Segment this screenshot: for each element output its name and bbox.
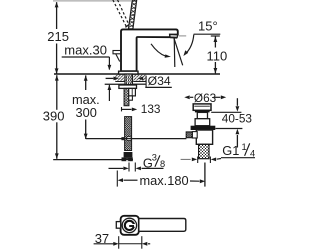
svg-text:110: 110	[207, 48, 228, 63]
svg-text:Ø34: Ø34	[148, 74, 171, 88]
svg-text:15°: 15°	[198, 19, 218, 34]
svg-text:8: 8	[160, 159, 165, 169]
svg-text:37: 37	[95, 231, 109, 246]
svg-text:300: 300	[76, 105, 97, 120]
svg-text:max.180: max.180	[140, 173, 189, 188]
svg-text:40-53: 40-53	[222, 111, 253, 125]
svg-text:3: 3	[152, 152, 157, 162]
svg-text:215: 215	[47, 29, 69, 44]
svg-text:Ø63: Ø63	[194, 91, 217, 105]
svg-text:133: 133	[141, 102, 161, 116]
svg-text:max.30: max.30	[64, 43, 107, 58]
svg-text:4: 4	[250, 148, 255, 158]
svg-text:390: 390	[43, 109, 65, 124]
svg-text:1: 1	[242, 142, 247, 152]
